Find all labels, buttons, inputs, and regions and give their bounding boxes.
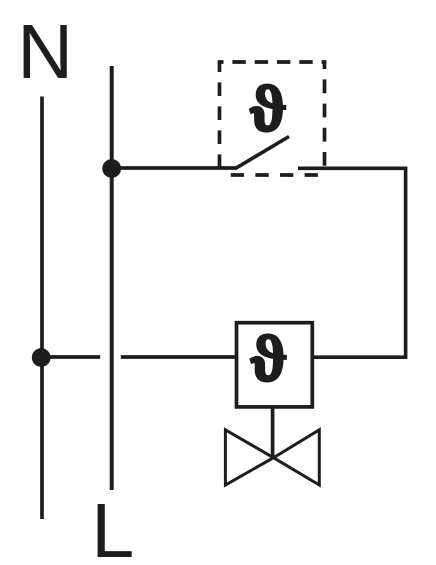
node junction dot on N	[32, 348, 51, 367]
theta symbol in thermostat box	[249, 84, 285, 132]
wire from N junction to actuator (broken at L crossing)	[41, 355, 100, 359]
svg-text:L: L	[91, 488, 134, 565]
valve symbol right triangle	[274, 430, 320, 485]
wire L vertical	[110, 66, 114, 490]
valve symbol left triangle	[225, 430, 273, 485]
wire from L junction to switch	[112, 166, 237, 170]
switch blade of thermostat contact	[237, 137, 290, 168]
wire N vertical	[40, 97, 44, 520]
thermostat dashed box: left edge	[218, 62, 222, 175]
valve stem wire	[271, 407, 275, 458]
thermostat dashed box: right edge	[323, 62, 327, 168]
actuator box	[237, 323, 313, 407]
wire from switch contact to right	[298, 168, 406, 357]
thermostat dashed box: bottom edge	[220, 173, 327, 177]
wire resuming after L crossing	[121, 355, 237, 359]
node junction dot on L	[102, 159, 121, 178]
theta symbol in actuator box	[250, 334, 286, 382]
svg-text:N: N	[17, 9, 73, 95]
thermostat dashed box: top edge	[218, 60, 327, 64]
